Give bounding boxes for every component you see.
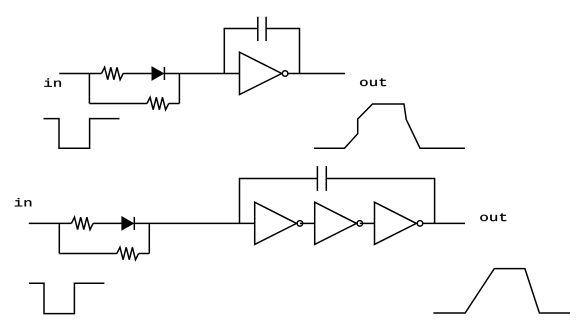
- waveform output (bottom circuit): [433, 269, 570, 313]
- junction node A (left, top circuit): [88, 74, 90, 104]
- wire feedback right riser (bottom circuit): [326, 179, 434, 224]
- junction node C (left, bottom circuit): [58, 223, 60, 253]
- wire U3 to U4: [360, 222, 375, 224]
- resistor R2 (parallel branch): [147, 97, 169, 109]
- wire input to resistor R3: [29, 222, 72, 224]
- wire bottom branch left: [89, 103, 147, 105]
- resistor R1: [102, 67, 124, 79]
- junction node B (right, top circuit): [178, 74, 180, 104]
- wire feedback left riser (bottom circuit): [240, 179, 318, 224]
- inverter U3: [315, 202, 363, 244]
- wire bottom branch right: [169, 103, 180, 105]
- capacitor C1: [258, 17, 266, 41]
- diode D1: [152, 67, 164, 80]
- junction node D (right, bottom circuit): [148, 223, 150, 253]
- wire U4 output: [423, 222, 465, 224]
- resistor R3: [71, 217, 93, 229]
- wire U2 to U3: [300, 222, 315, 224]
- node out (bottom circuit output label): [480, 213, 506, 221]
- wire feedback right riser: [266, 29, 299, 74]
- diode D2: [122, 217, 134, 230]
- wire input to resistor R1: [59, 73, 101, 75]
- wire D1 to inverter U1 input: [164, 73, 239, 75]
- capacitor C2: [317, 166, 326, 191]
- wire U1 output: [288, 73, 345, 75]
- node out (top circuit output label): [360, 78, 386, 86]
- node in (top circuit input label): [44, 78, 61, 86]
- wire bottom branch right (bottom circuit): [139, 253, 150, 255]
- inverter U2: [255, 202, 303, 244]
- wire feedback left riser: [224, 29, 257, 74]
- waveform input (bottom circuit): [29, 283, 104, 313]
- wire bottom branch left (bottom circuit): [59, 253, 117, 255]
- wire R1 to diode D1: [123, 73, 152, 75]
- inverter U1: [240, 52, 288, 94]
- waveform input (top circuit): [44, 119, 120, 149]
- node in (bottom circuit input label): [15, 198, 32, 206]
- wire D2 to inverter U2 input: [134, 222, 254, 224]
- wire R3 to diode D2: [93, 222, 122, 224]
- resistor R4 (parallel branch): [117, 247, 139, 259]
- inverter U4: [375, 202, 423, 244]
- waveform output (top circuit): [314, 104, 465, 148]
